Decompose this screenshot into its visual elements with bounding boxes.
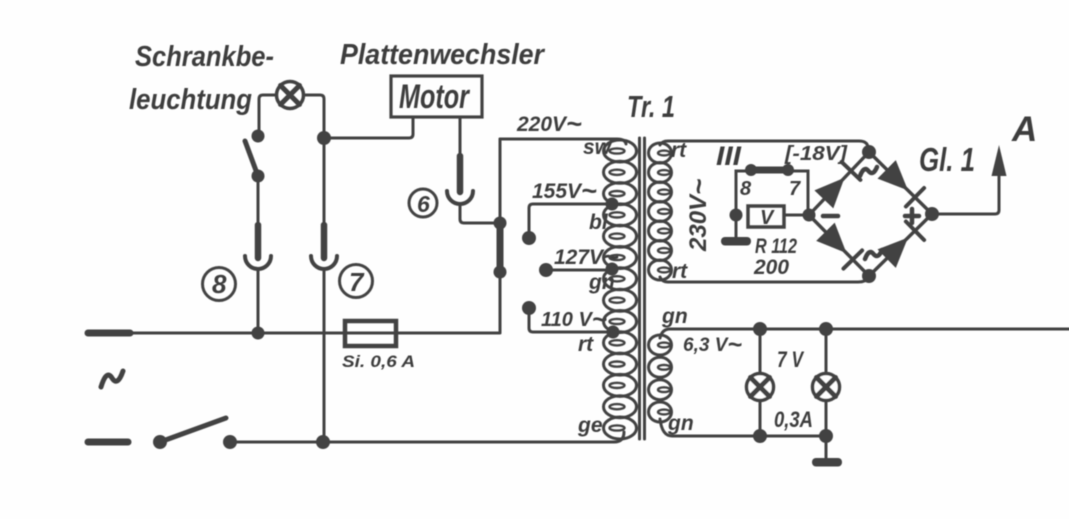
wire selector column bbox=[499, 139, 502, 333]
node lamp2 bottom bbox=[819, 429, 833, 443]
switch S2 blade bbox=[245, 141, 258, 176]
node bridge left bbox=[803, 209, 816, 222]
svg-text:7 V: 7 V bbox=[777, 347, 805, 372]
diode D3 bottom-left bbox=[816, 223, 846, 254]
svg-text:155V~: 155V~ bbox=[532, 176, 597, 206]
wire mains bottom lead-in (thick stub) bbox=[88, 439, 128, 446]
contact 7 pin bbox=[321, 225, 328, 258]
node 127V coil tap bbox=[606, 263, 619, 276]
contact 7 socket bbox=[311, 256, 337, 269]
label minus bbox=[823, 214, 838, 219]
wire 155V tap bbox=[529, 204, 611, 238]
svg-text:Motor: Motor bbox=[399, 78, 470, 116]
wire 230V top to bridge bbox=[660, 141, 869, 152]
motor box bbox=[391, 76, 482, 117]
svg-text:0,3A: 0,3A bbox=[774, 407, 813, 432]
svg-text:Gl. 1: Gl. 1 bbox=[919, 141, 975, 178]
svg-text:Plattenwechsler: Plattenwechsler bbox=[340, 39, 546, 71]
wire contact 6 to selector bbox=[460, 204, 500, 223]
svg-text:A: A bbox=[1011, 110, 1037, 149]
transformer secondary 230V winding bbox=[649, 143, 672, 280]
svg-text:Tr. 1: Tr. 1 bbox=[627, 89, 675, 124]
switch S2 lower contact bbox=[252, 170, 265, 183]
node 110V coil tap bbox=[607, 326, 620, 339]
wire 220V tap bbox=[500, 139, 626, 144]
wire fuse to selector column bbox=[396, 332, 499, 335]
node lamp2 top bbox=[819, 322, 833, 336]
node 110V plug bbox=[522, 301, 536, 315]
contact 6 socket bbox=[447, 191, 473, 204]
wire lamp2 vertical bbox=[825, 329, 828, 436]
svg-text:rt: rt bbox=[578, 333, 594, 356]
svg-text:V: V bbox=[760, 207, 775, 229]
node 127V plug bbox=[539, 263, 553, 277]
node junction contact8 branch on top mains wire bbox=[252, 327, 265, 340]
label circle 6 bbox=[409, 189, 437, 217]
wire motor right lead bbox=[459, 117, 462, 157]
wire junction to motor bbox=[324, 117, 413, 138]
wire bottom mains to transformer ge bbox=[230, 432, 624, 442]
svg-text:7: 7 bbox=[349, 267, 365, 297]
switch S2 top contact bbox=[252, 130, 265, 143]
wire switch to contact 8 pin bbox=[257, 176, 260, 226]
wire 230V bottom to bridge bbox=[660, 276, 869, 282]
svg-text:Si. 0,6 A: Si. 0,6 A bbox=[342, 352, 415, 371]
label circle 7 bbox=[340, 265, 373, 298]
svg-text:III: III bbox=[716, 141, 742, 171]
wire mains top to fuse bbox=[128, 332, 345, 335]
node bridge right bbox=[925, 207, 939, 221]
contact 8 socket bbox=[245, 256, 271, 269]
transformer primary winding bbox=[604, 140, 637, 439]
fuse Si. 0,6A bbox=[345, 321, 396, 346]
wire contact 7 column bbox=[323, 138, 326, 226]
node 155V plug bbox=[522, 231, 536, 245]
svg-text:rt: rt bbox=[671, 139, 687, 162]
wire contact 8 to mains bbox=[257, 269, 260, 333]
svg-text:6,3 V~: 6,3 V~ bbox=[683, 331, 742, 359]
wire mains top lead-in (thick stub) bbox=[88, 330, 130, 337]
selector jumper bar bbox=[497, 223, 504, 272]
diode D2 top-right bbox=[878, 160, 909, 190]
wire 6.3V bottom rail bbox=[660, 419, 826, 436]
wire 110V tap bbox=[529, 308, 611, 332]
label ~ bottom bbox=[865, 250, 882, 259]
label plus bbox=[905, 209, 919, 223]
ground R112 bbox=[735, 215, 738, 239]
wire output A bbox=[932, 172, 999, 214]
ground lamp rail bbox=[825, 436, 828, 459]
svg-text:Schrankbe-: Schrankbe- bbox=[135, 41, 274, 73]
lamp cabinet light bbox=[277, 82, 304, 109]
wire lamp1 vertical bbox=[759, 329, 762, 436]
svg-text:rt: rt bbox=[672, 260, 688, 283]
node selector bottom bbox=[494, 266, 507, 279]
svg-text:8: 8 bbox=[212, 269, 227, 299]
wire lamp right branch bbox=[304, 95, 324, 138]
svg-text:220V~: 220V~ bbox=[516, 109, 582, 139]
node bridge bottom bbox=[862, 269, 876, 283]
diode D1 top-left bbox=[814, 178, 844, 209]
wire 6.3V top rail gn bbox=[660, 329, 1069, 338]
svg-text:110 V~: 110 V~ bbox=[541, 304, 607, 334]
node lamp1 bottom bbox=[753, 429, 767, 443]
svg-text:230V~: 230V~ bbox=[683, 179, 714, 252]
svg-text:[-18V]: [-18V] bbox=[784, 143, 849, 165]
wire 127V tap bbox=[546, 269, 611, 272]
label circle 8 bbox=[203, 268, 236, 301]
contact 8 pin bbox=[255, 225, 262, 258]
node junction contact7 branch on bottom wire bbox=[316, 435, 330, 449]
node lamp1 top bbox=[753, 322, 767, 336]
lamp L2 7V bbox=[813, 374, 840, 401]
bridge rectifier Gl.1 outline bbox=[809, 152, 932, 276]
label ~ top bbox=[860, 167, 877, 176]
transformer secondary 6.3V winding bbox=[649, 335, 672, 422]
svg-text:200: 200 bbox=[753, 256, 789, 279]
svg-text:ge: ge bbox=[577, 414, 603, 437]
transformer core bbox=[640, 138, 645, 439]
svg-text:8: 8 bbox=[740, 178, 752, 200]
svg-text:leuchtung: leuchtung bbox=[129, 84, 252, 116]
svg-text:R 112: R 112 bbox=[755, 235, 797, 258]
svg-text:7: 7 bbox=[789, 178, 801, 200]
node selector top bbox=[494, 217, 507, 230]
wire contact 7 to bottom mains bbox=[323, 269, 326, 442]
AC source tilde bbox=[101, 371, 123, 387]
jumper link 8-7 bbox=[751, 167, 788, 174]
svg-text:gn: gn bbox=[667, 412, 694, 435]
node R112 left bbox=[730, 209, 743, 222]
svg-text:gn: gn bbox=[661, 305, 688, 328]
node bridge top bbox=[862, 145, 876, 159]
wire R112 right bbox=[784, 214, 809, 217]
lamp L1 7V bbox=[747, 374, 774, 401]
node switch pivot bbox=[153, 435, 167, 449]
node 155V coil tap bbox=[606, 198, 619, 211]
svg-text:6: 6 bbox=[417, 191, 430, 217]
switch S1 bottom pole blade bbox=[160, 418, 226, 442]
svg-text:sw: sw bbox=[583, 136, 613, 159]
arrow A bbox=[992, 145, 1007, 176]
contact 6 pin bbox=[457, 156, 464, 192]
node junction lamp/motor branch bbox=[317, 131, 331, 145]
diode D4 bottom-right bbox=[878, 238, 909, 268]
node switch open contact bbox=[223, 435, 237, 449]
wire lamp left branch down bbox=[259, 95, 276, 136]
resistor R112 box V bbox=[748, 206, 784, 227]
regulator loop III bbox=[736, 171, 808, 215]
